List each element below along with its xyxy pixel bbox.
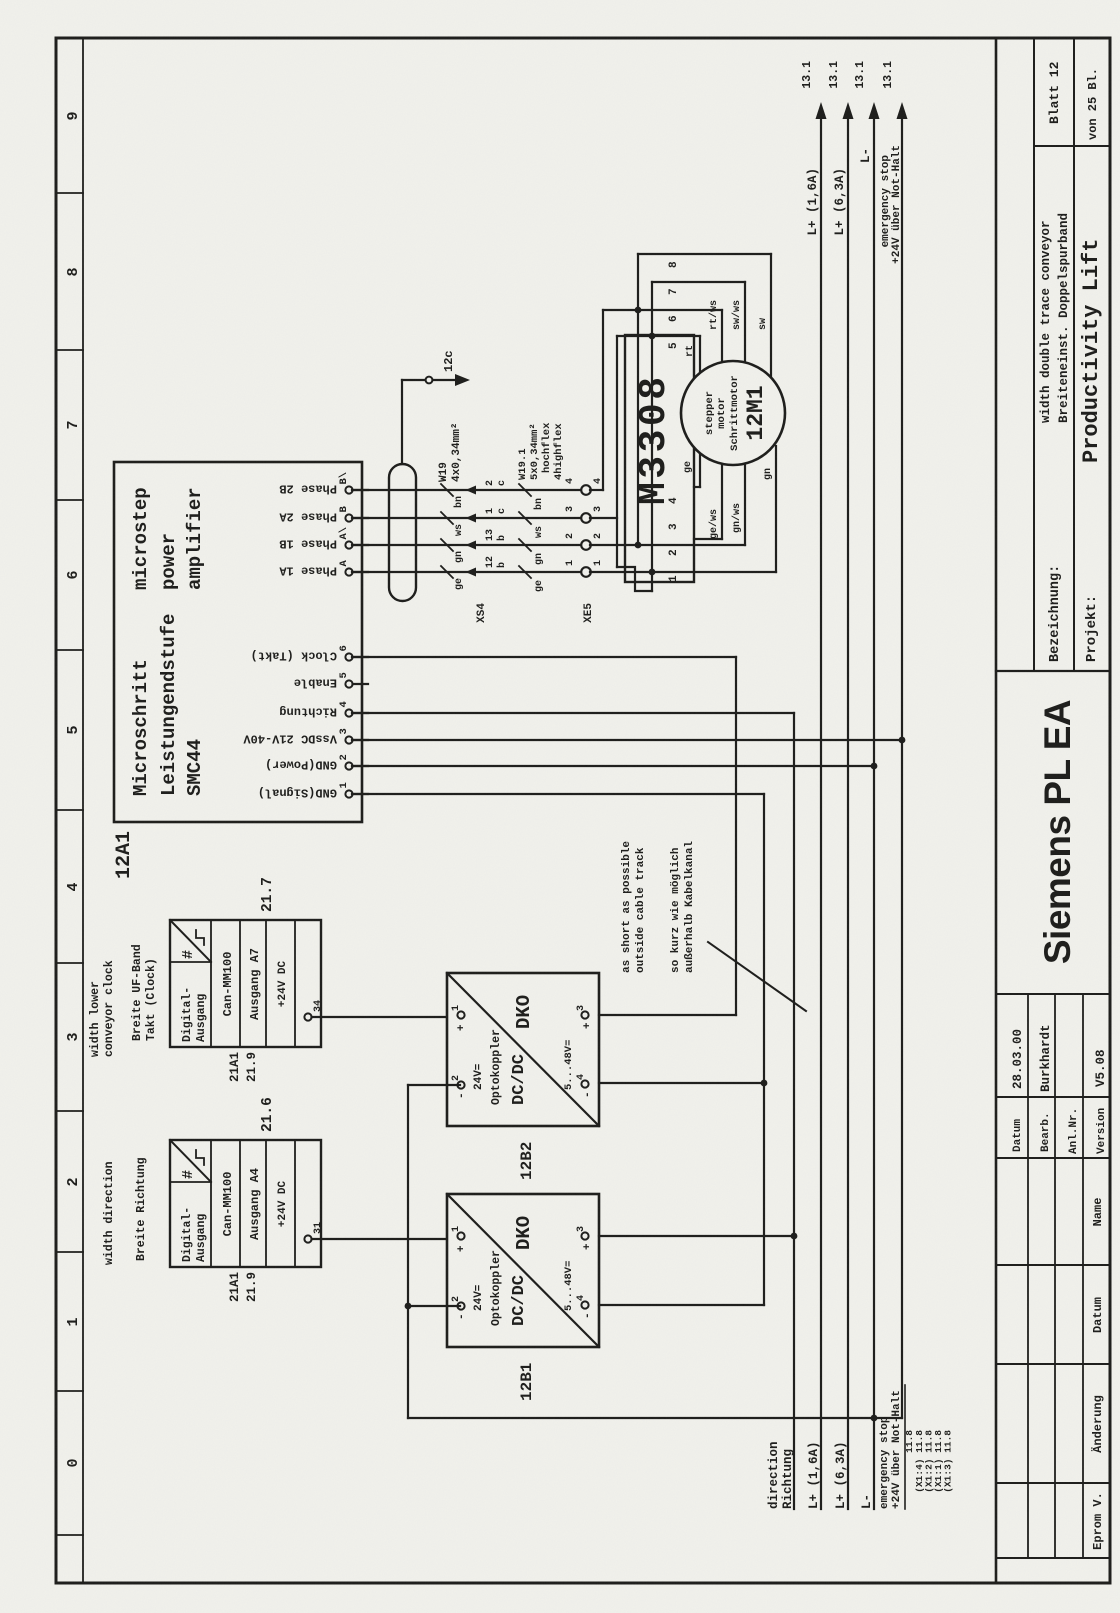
digital output module 21A1 (Ausgang A4) [170,1140,321,1267]
bus L+ (6,3A) [847,117,849,1509]
cable slash W19 [441,539,453,551]
lead rt/ws [721,310,723,364]
lead ge/ws [694,538,722,540]
junction t5 [649,333,656,340]
junction pin2/L- [871,763,878,770]
wire GND(Power) pin2 to L- [352,765,874,767]
contact XS4 [466,486,477,495]
wire Clock pin6 [352,656,736,658]
symbol step [196,1150,204,1165]
wire 1 gn [590,571,776,573]
DC/DC converter 12B2 Optokoppler DKO [447,973,599,1126]
pin B Phase 2A [345,514,352,521]
wire phase [352,517,590,519]
terminal box M3308 [625,335,694,582]
connector XE5 [581,567,591,577]
junction t2 [635,542,642,549]
wire phase [352,571,590,573]
bus +24V ueber Not-Halt [901,117,903,1418]
wire pin 34 to DC/DC [312,1016,447,1018]
pin 6 Clock (Takt) [345,653,352,660]
wire shield to 12c [401,380,403,464]
junction pin3/+24V [899,737,906,744]
pin 3 VssDC 21V-40V [345,736,352,743]
wire loop 7 [651,282,653,591]
amplifier U12A1 Microschritt Leistungendstufe SMC44 [114,462,362,822]
underline emergency left [904,1385,906,1509]
wire to L- [408,1417,902,1419]
digital output module 21A1 (Ausgang A7) [170,920,321,1047]
pin 2 GND(Power) [345,762,352,769]
cable slash W19.1 [519,512,531,524]
motor 12M1 stepper [681,361,785,465]
pin A\ Phase 1B [345,541,352,548]
wire 3 [590,517,617,519]
wire Vss pin3 to +24V [352,739,902,741]
lead rt [699,336,701,376]
bus L- [873,117,875,1509]
pin 5 Enable [345,680,352,687]
symbol step [196,930,204,945]
contact XS4 [466,568,477,577]
cable slash W19.1 [519,484,531,496]
lead ge [694,486,700,488]
arrow to 13.1 [869,102,880,119]
wire GND(Signal) pin1 [352,793,764,795]
arrow 12c down [455,374,470,386]
arrow to 13.1 [897,102,908,119]
pin 4 Richtung [345,709,352,716]
cable slash W19 [441,484,453,496]
wire 4 [590,489,603,491]
DC/DC converter 12B1 Optokoppler DKO [447,1194,599,1347]
lead sw/ws [744,282,746,362]
wire phase [352,489,590,491]
pin A Phase 1A [345,568,352,575]
wire 12B1 pin3 to Richtung bus [599,1235,794,1237]
wire phase [352,544,590,546]
wire staircase [617,567,652,591]
lead sw [770,254,772,378]
wire minus feed [407,1085,409,1418]
wire 12B2 pin2 [408,1084,460,1086]
cable slash W19.1 [519,539,531,551]
junction t6 [635,307,642,314]
junction Richtung [791,1233,798,1240]
pin 1 GND(Signal) [345,790,352,797]
symbol diagonal [170,1140,211,1182]
cable slash W19.1 [519,566,531,578]
bus direction/Richtung [793,713,795,1509]
cable slash W19 [441,566,453,578]
cable shield W19 oval [389,464,416,601]
pin B\ Phase 2B [345,486,352,493]
junction GND signal [761,1080,768,1087]
cable slash W19 [441,512,453,524]
arrow to 13.1 [843,102,854,119]
wire 12B1 pin2 [408,1305,460,1307]
arrow to 13.1 [816,102,827,119]
bus L+ (1,6A) [820,117,822,1509]
wire 2 gn/ws [590,544,745,546]
wire pin 31 to DC/DC [312,1238,447,1240]
wire Richtung pin4 [352,712,794,714]
wire loop 8 [637,254,639,545]
node 12c tap [426,377,433,384]
junction t1 [649,569,656,576]
wire 12B2 pin3 Clock [599,1014,736,1016]
junction L- [871,1415,878,1422]
contact XS4 [466,514,477,523]
net GND signal [763,794,765,1305]
leader line [708,942,806,1011]
net Clock [735,657,737,1015]
contact XS4 [466,541,477,550]
wire 12B1 pin4 [599,1304,764,1306]
symbol diagonal [170,920,211,962]
wire 12B2 pin4 [599,1082,764,1084]
